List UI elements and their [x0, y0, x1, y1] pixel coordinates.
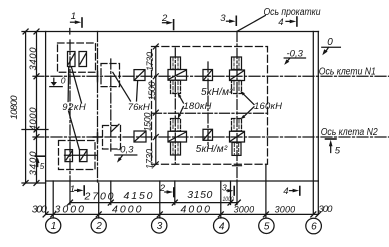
bolt well below P1b: [171, 142, 181, 155]
pad B (hatched): [79, 52, 87, 67]
grid 2 extension: [98, 183, 100, 218]
svg-text:6: 6: [311, 222, 317, 233]
dim tick B top: [34, 29, 39, 34]
svg-text:4: 4: [219, 221, 225, 232]
svg-text:5: 5: [335, 145, 341, 156]
dimension row 1 line: [70, 202, 238, 204]
grid 3 extension: [159, 181, 161, 218]
section mark 3 top: [227, 16, 237, 25]
svg-text:-0,3: -0,3: [117, 145, 134, 156]
dim tick B at 129.5: [34, 127, 39, 132]
bottom-left extension line: [22, 182, 46, 184]
svg-text:160кН: 160кН: [254, 101, 282, 112]
row2 tick x98.7: [96, 212, 101, 217]
foundation left edge: [45, 32, 47, 214]
row1 tick x174.8: [172, 200, 177, 205]
leader 160kN down: [240, 107, 254, 119]
row1 extension x230.5: [230, 181, 232, 205]
axis cross tick rolling axis / box bottom: [233, 165, 242, 167]
section mark 5 right: [326, 139, 337, 153]
svg-text:10800: 10800: [9, 95, 20, 120]
svg-text:5кН/м²: 5кН/м²: [196, 144, 228, 155]
level mark -0,3 middle: [115, 155, 137, 163]
row2 tick x53.2: [51, 212, 56, 217]
internal dim tick N1: [153, 74, 158, 79]
svg-text:2: 2: [159, 183, 166, 194]
pad A (hatched): [68, 52, 76, 67]
row1 extension x110.8: [110, 181, 112, 205]
leader 92kN down: [69, 111, 80, 149]
equipment dashed box 2 (lower left): [59, 141, 96, 170]
dim tick B bottom: [34, 181, 39, 186]
svg-text:3000: 3000: [55, 203, 85, 215]
pads centerline x=175.3: [174, 48, 176, 163]
pads centerline x=70: [69, 40, 71, 181]
level mark 0 left: [50, 78, 62, 86]
svg-text:4: 4: [283, 186, 288, 197]
pad A2 (hatched): [65, 150, 73, 162]
leader 180kN down: [178, 107, 184, 119]
pad P2 (hatched): [203, 70, 213, 81]
diagonal stroke at dashed square lower: [112, 124, 120, 131]
left dimension line B (3400/4000/3400): [36, 32, 38, 184]
svg-text:4000: 4000: [181, 203, 211, 215]
svg-text:92кН: 92кН: [62, 102, 86, 113]
row2 tick x220.8: [218, 212, 223, 217]
pad P2b (hatched): [203, 129, 213, 140]
svg-text:2: 2: [161, 13, 168, 24]
svg-text:1: 1: [71, 11, 76, 22]
equipment dashed box 1 (upper left): [58, 43, 96, 72]
pad P3 (hatched): [230, 70, 245, 81]
axis N1 (Ось клети N1): [33, 75, 389, 77]
section mark 2 top: [163, 20, 174, 30]
bolt well above P3: [232, 57, 242, 70]
leader Ось прокатки: [237, 16, 265, 32]
svg-text:4150: 4150: [124, 190, 153, 202]
row1 extension x237: [236, 183, 238, 205]
row1 extension x70: [69, 181, 71, 205]
row1 extension x174.8: [174, 181, 176, 205]
section mark 5 left: [35, 156, 45, 166]
dim tick B at axis N1: [34, 74, 39, 79]
bolt well below P3b: [232, 143, 241, 156]
mid-left extension line (dim boundary): [22, 129, 48, 131]
svg-text:3400: 3400: [28, 151, 39, 176]
bolt well above P3b (dashed): [232, 119, 242, 132]
svg-text:3150: 3150: [187, 189, 212, 201]
bolt well below P1 (dashed): [171, 80, 181, 93]
section mark 4 bottom: [290, 187, 300, 196]
foundation right outer edge: [317, 32, 319, 214]
svg-text:1000: 1000: [223, 196, 234, 203]
dashed square lower: [103, 126, 121, 150]
leader 76kN up-left: [113, 72, 131, 101]
svg-text:Ось прокатки: Ось прокатки: [264, 7, 321, 18]
row2 tick x159.8: [157, 212, 162, 217]
svg-text:5: 5: [264, 222, 270, 233]
foundation top edge: [22, 31, 319, 33]
svg-text:300: 300: [318, 204, 333, 215]
grid circle 2: [91, 218, 106, 233]
svg-text:4: 4: [278, 17, 283, 28]
leader 92kN up right: [72, 68, 82, 104]
svg-text:3000: 3000: [275, 205, 296, 215]
row1 tick x70: [68, 200, 73, 205]
dashed square upper (76kN area): [101, 64, 120, 87]
row1 tick x237.8: [235, 200, 240, 205]
internal dim tick N2: [153, 135, 158, 140]
grid circle 3: [152, 218, 167, 233]
svg-text:0: 0: [61, 76, 66, 86]
level mark -0,3 top: [284, 58, 305, 65]
svg-text:3400: 3400: [28, 47, 39, 71]
dimension row 2 line: [46, 213, 319, 215]
grid circle 1: [46, 218, 61, 233]
internal vertical dimension line (1730/1500/1500/1730): [155, 47, 157, 165]
internal dim tick mid: [153, 110, 158, 115]
svg-text:4000: 4000: [28, 107, 39, 131]
pad P1b (hatched): [168, 131, 187, 142]
dashed squares centerline x=110.8: [110, 59, 112, 151]
section line 1 tick at top edge: [69, 29, 71, 35]
foundation bottom edge: [46, 180, 319, 182]
axis N2 (Ось клета N2): [33, 136, 389, 138]
svg-text:180кН: 180кН: [183, 101, 211, 112]
axis cross tick grid2/N1: [97, 72, 99, 82]
svg-text:3: 3: [220, 13, 226, 24]
row1 tick x230.5: [228, 200, 233, 205]
svg-text:3000: 3000: [234, 205, 255, 215]
svg-text:1: 1: [70, 184, 75, 195]
pads centerline x=208: [207, 62, 209, 148]
row2 tick x265.9: [263, 212, 268, 217]
row2 tick x313.3: [311, 212, 316, 217]
section mark 3 bottom: [227, 187, 234, 196]
svg-text:Ось клета N2: Ось клета N2: [321, 127, 378, 138]
internal dim tick bottom: [153, 162, 158, 167]
section mark 1 top: [71, 18, 83, 27]
grid 1 extension: [52, 181, 54, 218]
dim tick A bottom: [23, 181, 28, 186]
hatched square upper (x134): [134, 70, 145, 81]
svg-text:1730: 1730: [145, 149, 155, 169]
grid circle 5: [259, 218, 274, 233]
svg-text:300: 300: [32, 204, 47, 216]
grid circle 4: [214, 218, 230, 234]
svg-text:2: 2: [95, 221, 102, 232]
svg-text:0: 0: [327, 37, 333, 48]
bolt well below P3 (dashed): [232, 81, 242, 94]
svg-text:1500: 1500: [147, 82, 157, 101]
row2 tick x45.6: [43, 212, 48, 217]
equipment mid centerline y=113.2: [152, 112, 268, 114]
row1 tick x110.8: [108, 200, 113, 205]
section mark 4 top: [286, 17, 297, 26]
row2 tick x318.3: [316, 212, 321, 217]
svg-text:4000: 4000: [112, 203, 142, 215]
grid 4 extension: [220, 181, 222, 218]
section mark 2 bottom: [165, 188, 174, 197]
grid circle 6: [306, 218, 322, 234]
grid 5 extension below big box: [265, 165, 267, 219]
leader 180kN up: [177, 93, 183, 103]
svg-text:76кН: 76кН: [128, 102, 150, 113]
pad P3b (hatched): [230, 131, 245, 142]
dim tick B at axis N2: [34, 135, 39, 140]
svg-text:5кН/м²: 5кН/м²: [201, 87, 233, 98]
grid 2 centerline: [97, 32, 99, 184]
big equipment dashed box (mill stands): [152, 47, 268, 165]
leader 160kN up: [240, 91, 254, 105]
pad P1 (hatched): [168, 70, 187, 81]
svg-text:1500: 1500: [143, 113, 153, 132]
hatched square lower (x134): [134, 131, 146, 142]
axis cross tick grid2/N2: [93, 133, 102, 142]
foundation right inner edge (grid 6 wall): [312, 32, 314, 214]
svg-text:Ось клети N1: Ось клети N1: [319, 66, 376, 77]
bolt well above P1: [171, 57, 181, 70]
level mark 0 right: [322, 47, 341, 55]
bolt well above P1b (dashed): [171, 119, 181, 132]
section 5 cut line through pads A2 B2: [65, 154, 98, 156]
rolling axis (Ось прокатки) vertical: [236, 32, 238, 184]
dim tick A top: [23, 29, 28, 34]
svg-text:3: 3: [222, 183, 227, 193]
svg-text:1: 1: [51, 221, 57, 232]
leader 92kN up left: [67, 67, 70, 102]
pad B2 (hatched): [80, 150, 88, 162]
section mark 1 bottom: [75, 186, 84, 195]
leader 76kN up: [137, 82, 138, 102]
internal dim tick top: [153, 44, 158, 49]
left dimension line A (10800): [25, 32, 27, 184]
svg-text:3: 3: [157, 221, 163, 232]
svg-text:1730: 1730: [145, 52, 155, 71]
svg-text:5: 5: [40, 162, 45, 171]
svg-text:-0,3: -0,3: [287, 48, 304, 59]
